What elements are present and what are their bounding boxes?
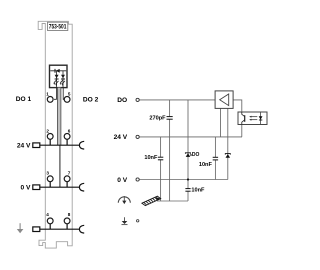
svg-text:1: 1	[46, 92, 49, 97]
svg-text:7: 7	[68, 171, 71, 176]
svg-text:8: 8	[68, 212, 71, 217]
svg-text:DO: DO	[192, 152, 200, 158]
svg-text:10nF: 10nF	[191, 188, 205, 194]
svg-text:4: 4	[46, 212, 49, 217]
svg-text:3: 3	[46, 171, 49, 176]
svg-text:DO 1: DO 1	[16, 96, 32, 103]
svg-text:5: 5	[68, 91, 71, 96]
svg-text:24 V: 24 V	[17, 142, 31, 149]
svg-text:24 V: 24 V	[114, 134, 128, 141]
svg-text:2: 2	[46, 129, 49, 134]
svg-text:DO 2: DO 2	[83, 97, 99, 104]
svg-text:0 V: 0 V	[117, 177, 127, 184]
svg-text:0 V: 0 V	[20, 184, 30, 191]
svg-text:753-501: 753-501	[49, 24, 67, 31]
svg-text:10nF: 10nF	[199, 162, 213, 168]
svg-text:6: 6	[68, 129, 71, 134]
svg-text:10nF: 10nF	[144, 155, 158, 161]
svg-text:270pF: 270pF	[149, 116, 166, 122]
svg-text:DO: DO	[117, 97, 127, 104]
